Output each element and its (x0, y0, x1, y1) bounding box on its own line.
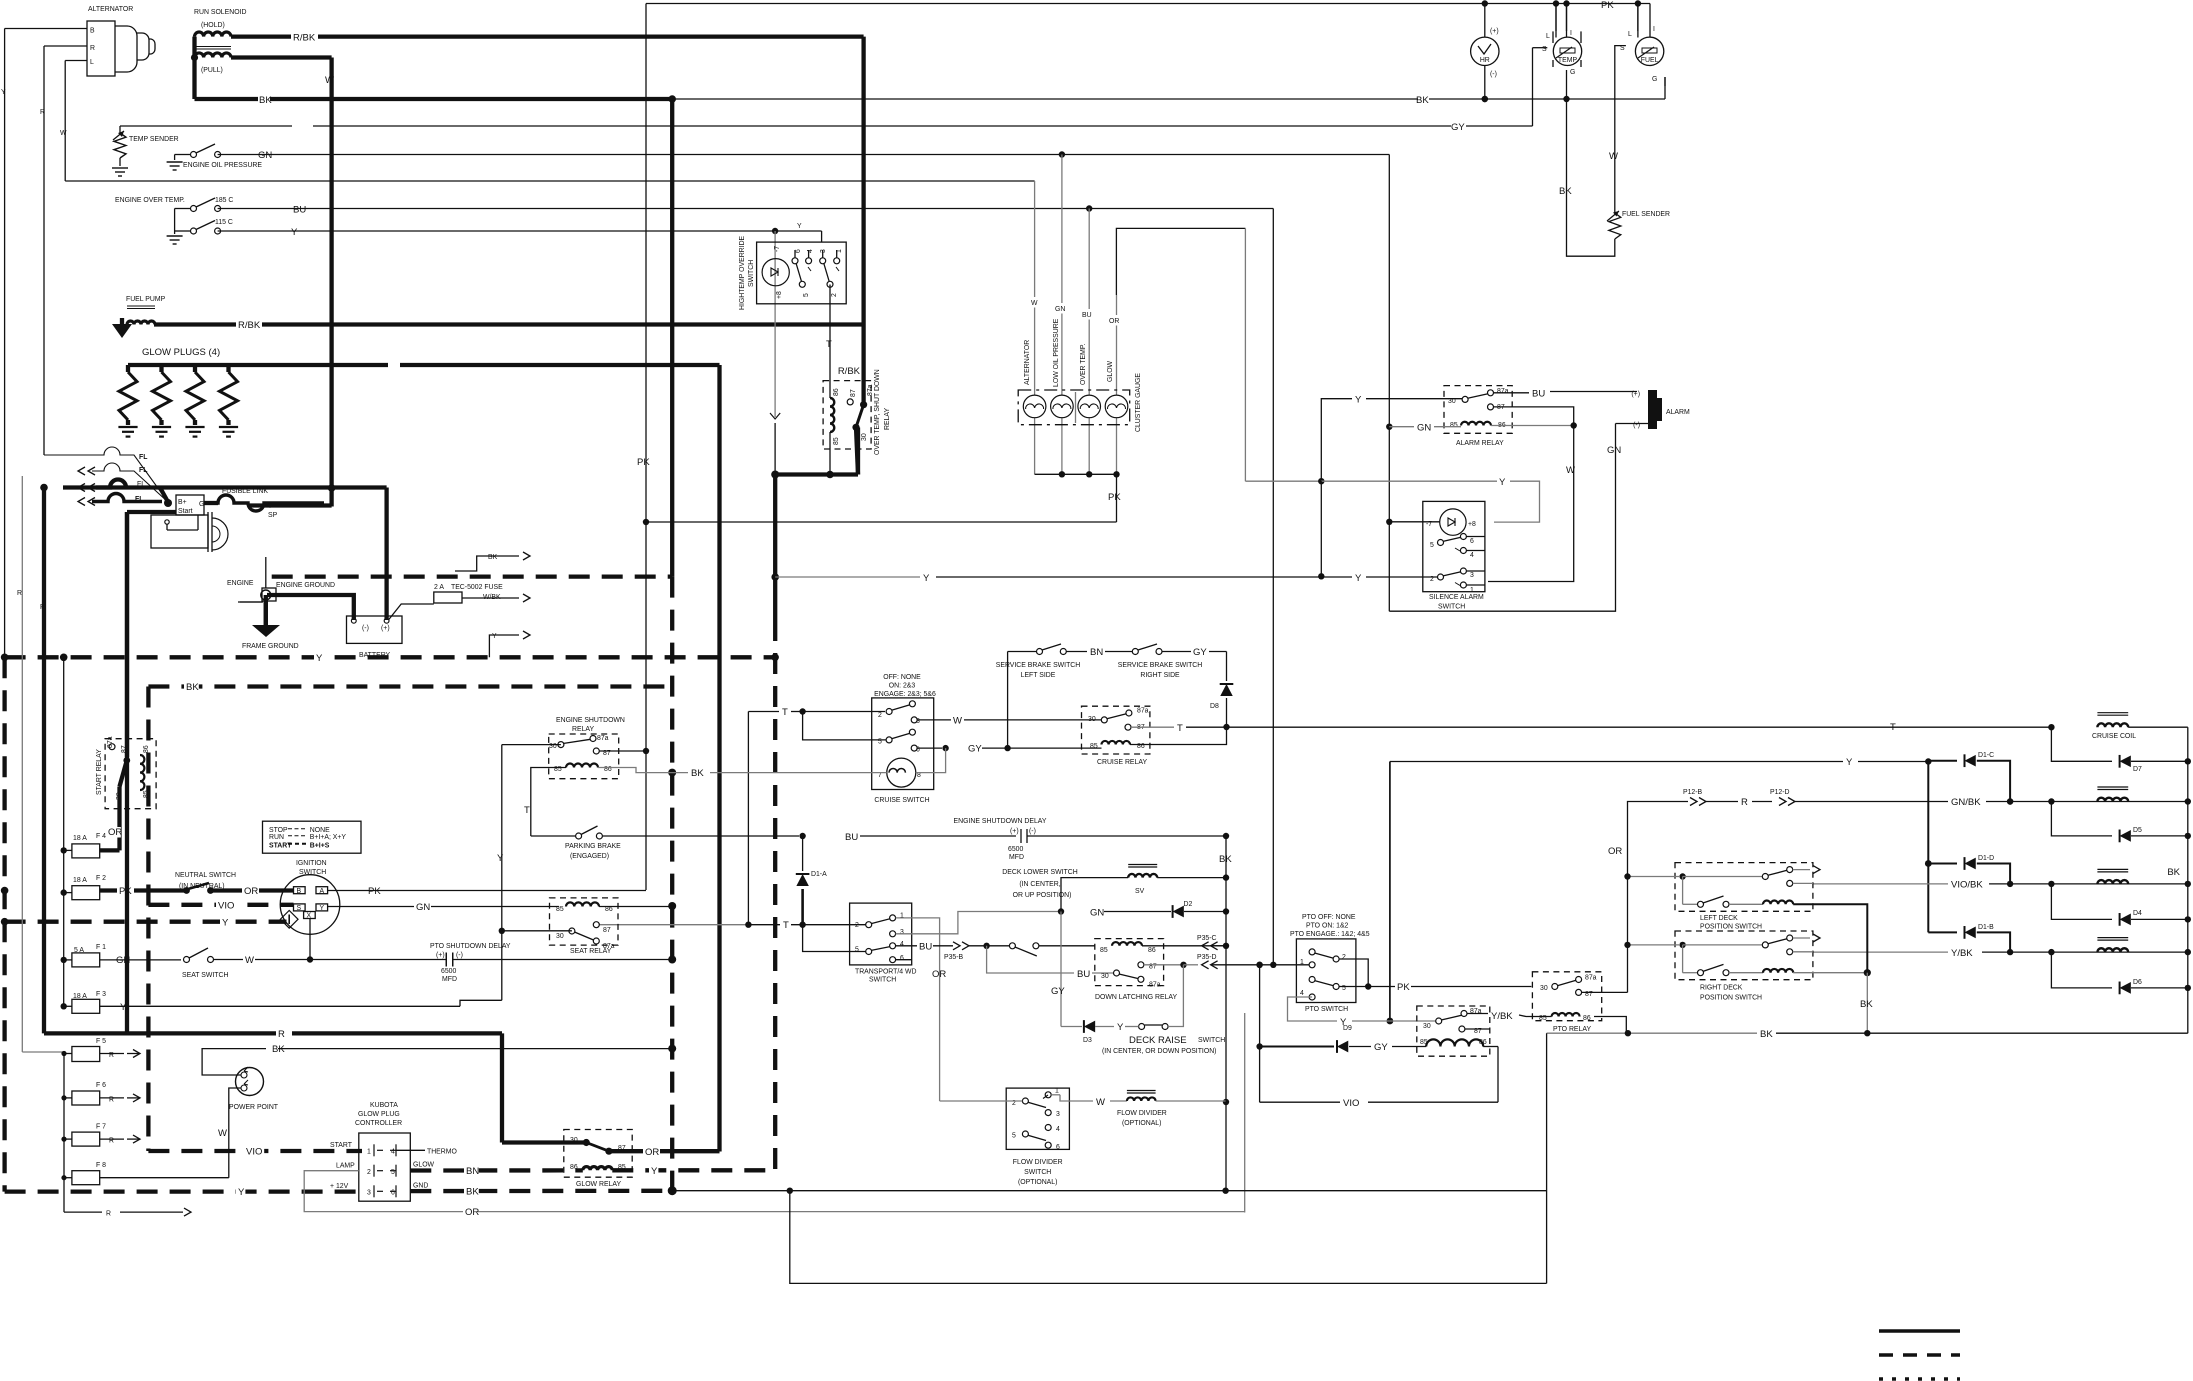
svg-text:6: 6 (1056, 1144, 1060, 1151)
wire: bottom link y=1283.4 (790, 1191, 1547, 1284)
wire: aux coil 86 to VIO (1483, 1046, 1498, 1048)
wire: GN D2 line y=911.5 (1058, 908, 1064, 914)
svg-text:START RELAY: START RELAY (96, 749, 103, 795)
svg-text:LEFT SIDE: LEFT SIDE (1021, 672, 1056, 679)
svg-text:PK: PK (119, 886, 132, 897)
svg-text:SV: SV (1135, 888, 1145, 895)
svg-text:CONTROLLER: CONTROLLER (355, 1120, 402, 1127)
svg-text:30: 30 (1540, 985, 1548, 992)
svg-text:R/BK: R/BK (238, 320, 261, 331)
svg-text:S: S (297, 905, 302, 912)
wire: BK solid vertical upper x=672.2 (670, 99, 674, 577)
component: SV coil (1128, 864, 1157, 866)
wire: silence pin1 wire to W (1485, 581, 1573, 583)
svg-text:DECK LOWER SWITCH: DECK LOWER SWITCH (1002, 869, 1077, 876)
svg-text:ENGINE SHUTDOWN DELAY: ENGINE SHUTDOWN DELAY (954, 818, 1047, 825)
svg-text:FUEL PUMP: FUEL PUMP (126, 296, 166, 303)
svg-text:TEMP: TEMP (1558, 57, 1578, 64)
svg-text:DOWN LATCHING RELAY: DOWN LATCHING RELAY (1095, 994, 1177, 1001)
svg-text:CRUISE COIL: CRUISE COIL (2092, 733, 2136, 740)
node: PK junction at cluster line (643, 519, 649, 525)
svg-text:GN/BK: GN/BK (1951, 797, 1981, 808)
svg-text:BK: BK (466, 1187, 479, 1198)
wire: BK vertical x=1226 (BU to BK bus) (1225, 836, 1227, 1191)
svg-text:85: 85 (1450, 422, 1458, 429)
bus: Y dashed bottom y=1191.6 (5, 1189, 362, 1193)
svg-text:2: 2 (878, 712, 882, 719)
svg-text:P12-D: P12-D (1770, 789, 1790, 796)
wire: BU to alarm plus (1494, 392, 1530, 394)
svg-text:6500: 6500 (1008, 846, 1023, 853)
svg-text:KUBOTA: KUBOTA (370, 1102, 398, 1109)
svg-text:BU: BU (845, 832, 858, 843)
wire: engine ground stub (265, 557, 267, 588)
wire: W y=181 (65, 180, 1034, 182)
component: temp sender resistor (114, 133, 126, 158)
svg-text:S: S (1620, 45, 1625, 52)
wire: BU drop to down latching 30 (987, 946, 1074, 973)
svg-text:R: R (40, 109, 45, 116)
svg-text:ENGINE OIL PRESSURE: ENGINE OIL PRESSURE (183, 162, 262, 169)
svg-text:87a: 87a (1149, 982, 1161, 989)
wire: thermo pin4 stub (396, 1149, 425, 1151)
switch: flow divider switch (1006, 1088, 1069, 1149)
wire: pin4 BU / P35-B arrows (896, 945, 917, 947)
svg-text:Y: Y (1846, 757, 1853, 768)
svg-text:P12-B: P12-B (1683, 789, 1703, 796)
svg-text:TEMP SENDER: TEMP SENDER (129, 136, 179, 143)
switch: service brake right (1132, 649, 1138, 655)
wire: GN vertical x=1389.3 (1388, 155, 1390, 612)
wire: cluster lamp wires (1034, 181, 1036, 395)
wire: pin5 jog from T (802, 711, 804, 713)
svg-text:BU: BU (293, 205, 306, 216)
diode: D6 branch (2051, 952, 2112, 988)
svg-text:115 C: 115 C (215, 219, 233, 226)
svg-text:-7: -7 (774, 246, 781, 252)
svg-text:Y: Y (222, 918, 229, 929)
wire: Y to PTO net junction (1320, 481, 1322, 576)
svg-text:Y/BK: Y/BK (1951, 948, 1973, 959)
svg-text:GN: GN (1055, 306, 1065, 313)
svg-text:87a: 87a (1585, 975, 1597, 982)
svg-text:5: 5 (803, 293, 810, 297)
svg-text:(PULL): (PULL) (201, 67, 223, 74)
svg-text:2: 2 (855, 922, 859, 929)
svg-text:SWITCH: SWITCH (1438, 604, 1465, 611)
svg-text:3: 3 (367, 1190, 371, 1197)
component: frame ground arrow (252, 625, 280, 637)
component: Y/BK coil (2097, 937, 2128, 939)
svg-text:86: 86 (570, 1164, 578, 1171)
svg-text:3: 3 (900, 929, 904, 936)
svg-text:L: L (90, 59, 94, 66)
svg-text:BU: BU (1532, 389, 1545, 400)
svg-text:18 A: 18 A (73, 835, 87, 842)
svg-text:SERVICE BRAKE SWITCH: SERVICE BRAKE SWITCH (1118, 662, 1203, 669)
svg-text:FL: FL (139, 454, 147, 461)
wire: ignition A to PK (328, 890, 646, 892)
svg-text:ENGINE: ENGINE (227, 580, 254, 587)
svg-text:SWITCH: SWITCH (748, 260, 755, 287)
svg-text:PK: PK (637, 457, 650, 468)
svg-text:MFD: MFD (1009, 854, 1024, 861)
wire: Y into alarm relay 30 y=399.4 (1244, 228, 1246, 481)
svg-text:D8: D8 (1210, 703, 1219, 710)
component: power point (236, 1068, 264, 1096)
svg-text:W: W (1566, 465, 1575, 476)
svg-text:6: 6 (795, 249, 802, 253)
svg-text:Y: Y (1499, 477, 1506, 488)
svg-text:F 6: F 6 (96, 1082, 106, 1089)
diode: D5 branch (2051, 802, 2112, 836)
svg-text:6: 6 (900, 955, 904, 962)
svg-text:(-): (-) (362, 625, 369, 632)
svg-text:PTO OFF: NONE: PTO OFF: NONE (1302, 914, 1356, 921)
wire: fusible link bus y=487.5 to battery+ (63, 485, 387, 489)
gauge: HR meter (1471, 37, 1499, 65)
wire: 87a to PTO relay coil (1467, 1013, 1488, 1015)
svg-text:W: W (245, 955, 254, 966)
relay: aux relay coil 85-86 lower (1426, 1039, 1483, 1046)
svg-text:S: S (1542, 46, 1547, 53)
svg-text:T: T (524, 805, 530, 816)
svg-text:87: 87 (850, 389, 857, 397)
svg-text:(OPTIONAL): (OPTIONAL) (1018, 1179, 1057, 1186)
svg-text:BK: BK (272, 1044, 285, 1055)
svg-text:FRAME GROUND: FRAME GROUND (242, 643, 299, 650)
svg-text:+8: +8 (776, 291, 783, 299)
svg-text:30: 30 (861, 433, 868, 441)
svg-text:(+): (+) (1631, 391, 1640, 398)
svg-text:GN: GN (116, 955, 130, 966)
diode: D3 deck raise (1061, 1026, 1082, 1028)
svg-text:85: 85 (143, 790, 150, 798)
svg-text:87a: 87a (597, 735, 609, 742)
component: fusible link wavy SP (204, 495, 324, 511)
svg-text:F 8: F 8 (96, 1162, 106, 1169)
wire: ignition Y to GN/seat relay (328, 906, 414, 908)
svg-text:LAMP: LAMP (336, 1163, 355, 1170)
svg-text:BK: BK (691, 768, 704, 779)
legend: dotted line sample (1879, 1377, 1960, 1380)
wire: seat relay 87 T line y=924.7 (599, 924, 748, 926)
svg-text:GY: GY (1193, 647, 1207, 658)
svg-text:5: 5 (855, 947, 859, 954)
svg-text:B: B (90, 28, 95, 35)
wire: VIO/BK line y=883.9 (1813, 883, 1948, 885)
svg-text:185 C: 185 C (215, 197, 233, 204)
svg-text:R: R (40, 604, 45, 611)
diode: D2 (1173, 906, 1184, 918)
wire: GN bottom elbow to alarm minus (1389, 424, 1615, 612)
svg-text:ENGINE GROUND: ENGINE GROUND (276, 582, 335, 589)
svg-text:+ 12V: + 12V (330, 1183, 349, 1190)
svg-text:VIO: VIO (1343, 1098, 1359, 1109)
svg-text:6500: 6500 (441, 968, 456, 975)
svg-text:Y: Y (492, 633, 497, 640)
svg-text:Y: Y (291, 227, 298, 238)
wire: SV line (1061, 878, 1128, 912)
svg-text:R: R (278, 1029, 285, 1040)
relay: PTO RELAY box (1532, 972, 1601, 1021)
wire: cluster gauge bottom bus y=474.3 (1034, 418, 1036, 474)
svg-text:NONE: NONE (310, 827, 330, 834)
svg-text:OR: OR (108, 827, 122, 838)
svg-text:2: 2 (1430, 576, 1434, 583)
diode: D1-D (1928, 863, 1957, 865)
svg-text:BU: BU (1077, 969, 1090, 980)
wire: GY riser x=1259.6 P35-D to VIO (1259, 965, 1261, 1102)
wire: R heavy line y=1033.4 (44, 1031, 276, 1035)
wire: TEC fuse to W/BK arrow (462, 597, 519, 599)
svg-text:4: 4 (1470, 552, 1474, 559)
svg-text:Y: Y (797, 223, 802, 230)
svg-text:HIGHTEMP OVERRIDE: HIGHTEMP OVERRIDE (739, 235, 746, 310)
svg-text:(OPTIONAL): (OPTIONAL) (1122, 1120, 1161, 1127)
relay: OVER TEMP SHUT DOWN RELAY (823, 381, 871, 449)
svg-text:GND: GND (413, 1183, 428, 1190)
wire: Y/BK line y=952.1 (1813, 951, 1948, 953)
svg-text:PTO SWITCH: PTO SWITCH (1305, 1006, 1348, 1013)
svg-text:1: 1 (1300, 959, 1304, 966)
wire: PK line y=989.9 (1339, 986, 1395, 988)
svg-text:D6: D6 (2133, 979, 2142, 986)
wire: Y thin left edge x=4.6 from alternator B (4, 29, 6, 658)
diode: D9 (1260, 1046, 1334, 1048)
wire: fusible link from B+ y=505 (204, 501, 218, 505)
svg-text:T: T (826, 339, 832, 350)
svg-text:GLOW RELAY: GLOW RELAY (576, 1181, 621, 1188)
svg-text:R: R (1741, 797, 1748, 808)
svg-text:(IN CENTER, OR DOWN POSITION): (IN CENTER, OR DOWN POSITION) (1102, 1048, 1216, 1055)
svg-text:R: R (90, 45, 95, 52)
svg-text:(-): (-) (1029, 828, 1036, 835)
svg-text:PTO RELAY: PTO RELAY (1553, 1026, 1591, 1033)
svg-text:2: 2 (1342, 954, 1346, 961)
wire: PULL coil to W bus (231, 55, 332, 59)
svg-text:D3: D3 (1083, 1037, 1092, 1044)
svg-text:Y: Y (1355, 573, 1362, 584)
svg-text:X: X (307, 913, 312, 920)
bus: left dashed vertical x=4.6 (2, 657, 6, 1191)
wire: 87 P35-D line y=964.8 (1144, 964, 1181, 966)
svg-text:4: 4 (900, 941, 904, 948)
svg-text:Y: Y (497, 853, 504, 864)
svg-text:START: START (330, 1142, 353, 1149)
svg-text:85: 85 (618, 1164, 626, 1171)
wire: BK thin bottom y=1190.7 to right (672, 1190, 1225, 1192)
svg-text:BK: BK (1416, 95, 1429, 106)
wire: VIO line y=1102.2 (1260, 1101, 1340, 1103)
wire: PK vertical x=646 (645, 4, 647, 891)
svg-text:P35-B: P35-B (944, 954, 964, 961)
wire: gray Y drop through hightemp lamp x=775.1 (774, 231, 776, 417)
svg-text:30: 30 (1088, 716, 1096, 723)
svg-text:PK: PK (1601, 0, 1614, 11)
svg-text:ENGINE OVER TEMP.: ENGINE OVER TEMP. (115, 197, 185, 204)
wire: BU vertical x=127 (125, 512, 129, 1033)
svg-text:ENGINE SHUTDOWN: ENGINE SHUTDOWN (556, 717, 625, 724)
wire: right rail x=2187.8 (2187, 727, 2189, 1033)
svg-text:(-): (-) (456, 952, 463, 959)
svg-text:87a: 87a (867, 384, 874, 396)
svg-text:Y: Y (316, 653, 323, 664)
svg-text:6: 6 (1470, 538, 1474, 545)
wire: power point lower to F8/W (229, 1088, 241, 1178)
svg-text:DECK RAISE: DECK RAISE (1129, 1035, 1187, 1046)
svg-text:+8: +8 (1468, 521, 1476, 528)
svg-text:RELAY: RELAY (572, 726, 594, 733)
svg-text:1: 1 (367, 1149, 371, 1156)
svg-text:(ENGAGED): (ENGAGED) (570, 853, 609, 860)
svg-text:D1-C: D1-C (1978, 752, 1994, 759)
svg-text:SEAT RELAY: SEAT RELAY (570, 948, 612, 955)
svg-text:MFD: MFD (442, 976, 457, 983)
svg-text:R: R (109, 1097, 114, 1104)
component: flow divider coil (1127, 1090, 1156, 1092)
wire: BK bottom right y=1033.2 (1547, 1032, 1757, 1034)
wire: T line to cruise coil (2048, 724, 2054, 730)
wire: alternator R to R vertical (44, 45, 87, 47)
svg-text:4: 4 (1056, 1126, 1060, 1133)
svg-text:W: W (218, 1128, 227, 1139)
svg-text:W: W (953, 716, 962, 727)
svg-text:OR: OR (244, 886, 258, 897)
wire: R/BK thick top y=36.6 (231, 34, 291, 38)
svg-text:PK: PK (1108, 492, 1121, 503)
switch: SILENCE ALARM SWITCH (1423, 501, 1485, 591)
svg-text:30: 30 (556, 933, 564, 940)
component: alternator (87, 21, 115, 76)
svg-text:PK: PK (368, 886, 381, 897)
svg-text:CRUISE RELAY: CRUISE RELAY (1097, 759, 1147, 766)
diode: D1-C (1928, 760, 1957, 762)
svg-text:NEUTRAL SWITCH: NEUTRAL SWITCH (175, 872, 236, 879)
wire: GN to alarm relay coil (1389, 426, 1414, 428)
svg-text:T: T (1177, 723, 1183, 734)
wire: R gray vertical x=22.3 (21, 476, 23, 1052)
bus: Y dashed to ignition key y=921.7 (5, 920, 287, 924)
wire: Y thin y=576.3 (775, 576, 920, 578)
wire: battery+ to TEC fuse R (388, 604, 433, 620)
svg-text:CLUSTER GAUGE: CLUSTER GAUGE (1135, 373, 1142, 432)
svg-text:3: 3 (820, 249, 827, 253)
svg-text:D4: D4 (2133, 910, 2142, 917)
bus: VIO dashed bottom y=1151 (148, 1149, 362, 1153)
relay: ALARM RELAY (1444, 386, 1512, 434)
bus: Y dashed horizontal y=657.3 (5, 655, 776, 659)
bus: VIO dashed vertical x=148.4 (146, 687, 150, 1152)
svg-text:ALARM RELAY: ALARM RELAY (1456, 440, 1504, 447)
wire: PK top bus y=3.5 (646, 3, 1650, 5)
svg-text:GLOW PLUG: GLOW PLUG (358, 1111, 400, 1118)
wire: T vertical x=748.4 to cruise T (747, 712, 749, 925)
svg-text:ENGAGE: 2&3; 5&6: ENGAGE: 2&3; 5&6 (874, 691, 936, 698)
svg-text:PTO SHUTDOWN DELAY: PTO SHUTDOWN DELAY (430, 943, 511, 950)
svg-text:ON: 2&3: ON: 2&3 (889, 683, 916, 690)
switch: seat switch (184, 957, 190, 963)
svg-text:F 4: F 4 (96, 833, 106, 840)
wire: pin3 up-over to SV/GN node (896, 912, 1058, 934)
svg-text:ALTERNATOR: ALTERNATOR (88, 6, 133, 13)
wire: ignition X to W line (309, 919, 311, 960)
wire: solenoid left vertical (192, 37, 196, 99)
wire: PTO relay 86 to BK (1594, 1017, 1626, 1034)
bus: VIO dashed to ignition S y=904.8 (148, 903, 293, 907)
svg-text:SWITCH: SWITCH (869, 977, 896, 984)
svg-text:HR: HR (1480, 57, 1490, 64)
svg-text:GLOW PLUGS (4): GLOW PLUGS (4) (142, 347, 220, 358)
wire: T to transport sw pin2/pin5 (791, 924, 866, 926)
wire: Y silence line y=481.2 to lamp (1321, 480, 1497, 482)
svg-text:86: 86 (1148, 947, 1156, 954)
svg-text:BN: BN (1090, 647, 1103, 658)
wire: diode stack vertical x=1928.3 (1927, 761, 1929, 933)
switch: deck raise switch (1139, 1024, 1145, 1030)
wire: Y hightemp pin3 (821, 231, 823, 242)
svg-text:BK: BK (2167, 867, 2180, 878)
wire: heavy vertical x=1546.6 down (1546, 1033, 1548, 1283)
wire: Y line into diode stack y=760.7 (1390, 761, 1843, 763)
node: thick junction x=775.2 y=474.5 (771, 471, 779, 479)
relay: SEAT RELAY (550, 898, 619, 945)
svg-text:87: 87 (603, 927, 611, 934)
svg-text:F 5: F 5 (96, 1038, 106, 1045)
wire: F5-F8 left vertical x=64 (63, 1054, 65, 1213)
wire: BK from deck switches down (1866, 973, 1868, 1033)
svg-text:1: 1 (1470, 587, 1474, 594)
svg-text:R: R (109, 1138, 114, 1145)
svg-text:BK: BK (1559, 186, 1572, 197)
wire: lamp pin2 wire to OR bottom (304, 1171, 1244, 1212)
svg-text:OR: OR (932, 969, 946, 980)
svg-text:RUN SOLENOID: RUN SOLENOID (194, 9, 246, 16)
svg-text:A: A (320, 888, 325, 895)
wire: GN y=154.5 (218, 154, 1390, 156)
svg-text:2: 2 (831, 293, 838, 297)
svg-text:ALARM: ALARM (1666, 409, 1690, 416)
svg-text:SILENCE ALARM: SILENCE ALARM (1429, 594, 1484, 601)
legend: ignition modes box (263, 821, 362, 853)
component: battery (347, 616, 403, 643)
wire: fuse left vertical x=63.7 (63, 657, 65, 1007)
svg-text:GY: GY (1051, 986, 1065, 997)
svg-text:D1-B: D1-B (1978, 924, 1994, 931)
wire: OR lamp riser corner to silence-Y net (1116, 228, 1245, 295)
svg-text:4: 4 (391, 1149, 395, 1156)
svg-text:W: W (1096, 1097, 1105, 1108)
switch: service brake left (1007, 652, 1009, 749)
svg-text:L: L (1546, 33, 1550, 40)
component: GN/BK coil (2097, 786, 2128, 788)
svg-text:BK: BK (1760, 1029, 1773, 1040)
svg-text:F 1: F 1 (96, 944, 106, 951)
switch: left deck position switch (1675, 863, 1813, 912)
component: starter motor (176, 495, 204, 515)
gauge: FUEL (1635, 37, 1663, 65)
diode: D1-B (1928, 931, 1957, 933)
wire: PK line to cluster gauge y=522 (646, 521, 1117, 523)
svg-text:86: 86 (1479, 1039, 1487, 1046)
svg-text:TEC-5002 FUSE: TEC-5002 FUSE (451, 584, 503, 591)
svg-text:I: I (1653, 26, 1655, 33)
gauge: TEMP (1553, 37, 1581, 65)
svg-text:GN: GN (1090, 908, 1104, 919)
svg-text:RIGHT SIDE: RIGHT SIDE (1140, 672, 1180, 679)
wire: GY drop x=1061 to deck raise (1060, 912, 1062, 1027)
svg-text:BN: BN (466, 1166, 479, 1177)
